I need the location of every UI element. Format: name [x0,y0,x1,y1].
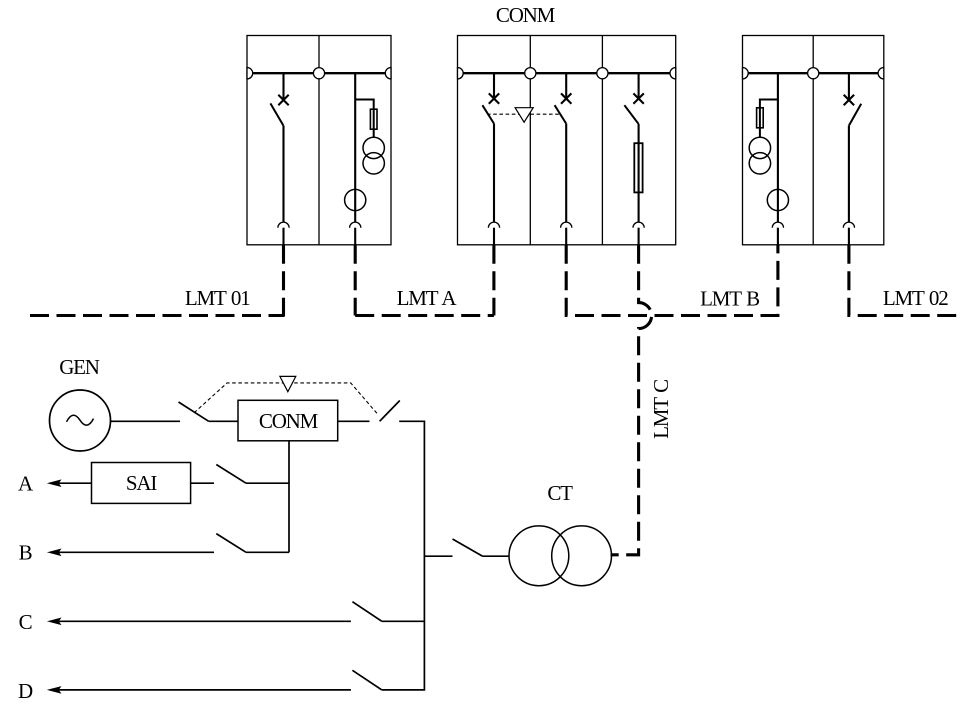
wire arrow D to switch D [58,689,351,691]
arrow A [49,480,61,486]
P3 cell1 CT ring [767,189,788,210]
wire SAI to switch A [191,482,214,484]
P2 cell1 switch blade [482,105,494,123]
CONM drop wire [288,441,290,553]
busbar junction circle P1 right [385,68,391,79]
transformer CT circle right [552,526,612,586]
wire arrow C to switch C [58,620,351,622]
busbar junction circle P3 left [743,68,749,79]
svg-text:CT: CT [547,481,573,505]
busbar P2 [458,72,676,74]
P1 cell1 switch blade [270,103,283,125]
interlock triangle P2 [515,108,533,123]
cable run LMT 01 [30,314,284,317]
cable run LMT A [355,314,494,317]
P2 cell2 cable head arc [561,222,572,228]
busbar junction circle P2 d [670,68,676,79]
P1 cell2 VT branch wire [355,100,374,138]
switch S1 blade (GEN side) [179,402,209,421]
P2 cell2 switch blade [555,105,567,123]
P1 cell2 VT circle lower [363,153,384,174]
P1 cell2 fuse [370,109,377,129]
busbar junction circle P3 right [878,68,884,79]
P3 cell1 VT branch wire [760,100,778,138]
wire switch A to CONM drop [246,482,289,484]
busbar junction circle P2 c [597,68,608,79]
P2 cell2 cable tail [565,228,567,245]
svg-text:C: C [19,610,32,634]
P2 cell3 contact cross [633,93,643,103]
generator sine symbol [67,415,94,425]
P3 cell2 feeder stub [848,73,850,100]
P3 cell1 fuse [757,108,764,128]
CONM box [238,400,338,441]
svg-text:LMT B: LMT B [700,287,759,311]
P2 cell1 cable head arc [488,222,499,228]
switch C blade [352,602,381,622]
panel P1 enclosure [247,36,391,245]
busbar junction circle P1 mid [313,68,324,79]
svg-text:LMT C: LMT C [649,380,673,439]
arrow D [49,687,61,693]
interlock dashed link P2 [487,113,560,115]
interlock triangle (transfer) [280,376,296,391]
P3 cell1 main line [777,73,779,222]
P1 cell2 cable head arc [350,222,361,228]
P2 cell3 feeder line [638,124,640,222]
wire arrow A to SAI [58,482,92,484]
P2 cell1 contact cross [489,93,499,103]
arrow B [49,549,61,555]
panel P2 enclosure [458,36,676,245]
svg-text:LMT 02: LMT 02 [883,286,948,310]
svg-text:LMT A: LMT A [397,286,458,310]
P3 cell1 cable head arc [772,222,783,228]
busbar junction circle P1 left [247,68,253,79]
switch CT blade [453,539,483,556]
wire switch to CONM box [209,420,238,422]
P3 cell2 switch blade [849,104,861,126]
svg-text:CONM: CONM [496,3,556,27]
cable run LMT 01 drop [282,245,285,317]
P2 cell3 cable head arc [633,222,644,228]
cable run LMT A drop right [492,245,495,316]
P2 cell3 fuse [634,143,642,192]
svg-text:B: B [19,541,32,565]
svg-text:SAI: SAI [126,471,157,495]
wire switch B to CONM drop [246,551,289,553]
P3 cell2 feeder line [848,126,850,223]
svg-text:D: D [18,679,33,703]
P1 cell1 contact cross [278,95,288,105]
wire arrow B to switch B [58,551,214,553]
switch B blade [216,534,246,553]
busbar P3 [743,72,884,74]
P2 cell2 feeder line [565,124,567,223]
P2 cell3 switch blade [624,105,638,124]
panel P3 enclosure [743,36,884,245]
P3 cell1 VT circle lower [749,153,770,174]
P2 cell3 cable tail [638,228,640,245]
arrow C [49,618,61,624]
wire CONM box to switch S2 [338,420,370,422]
P1 cell1 cable head arc [278,222,289,228]
cable run LMT A drop left [354,245,357,316]
busbar junction circle P2 b [525,68,536,79]
wire switch CT to CT [483,555,510,557]
cable run LMT 02 [849,245,958,316]
P3 cell1 cable tail [777,228,779,245]
P3 cell2 cable head arc [843,222,854,228]
P2 cell1 feeder stub [493,73,495,98]
cable run LMT C with crossover hop [611,245,652,555]
P3 cell2 contact cross [844,95,854,105]
P2 cell2 contact cross [561,93,571,103]
svg-text:A: A [18,472,34,496]
transformer CT circle left [509,526,569,586]
P2 cell1 feeder line [493,124,495,223]
P2 cell3 feeder stub [638,73,640,98]
P3 cell2 cable tail [848,228,850,245]
busbar junction circle P3 mid [808,68,819,79]
wire GEN to switch [111,420,181,422]
trunk wire (right riser with D corner) [382,421,425,690]
busbar P1 [247,72,391,74]
busbar junction circle P2 a [458,68,464,79]
P1 cell1 cable tail [282,228,284,245]
generator G [50,390,111,451]
cable run LMT B [566,245,778,316]
svg-text:GEN: GEN [59,355,100,379]
P1 cell2 CT ring [345,189,366,210]
switch A blade [216,465,246,484]
svg-text:LMT 01: LMT 01 [185,286,250,310]
wire trunk to switch CT [424,555,452,557]
wire switch C to trunk [382,620,425,622]
interlock dashed link (transfer) [194,383,378,415]
P3 cell1 VT circle upper [749,137,770,158]
svg-text:CONM: CONM [259,409,319,433]
switch D blade [352,670,381,690]
P1 cell2 cable tail [354,228,356,245]
P2 cell1 cable tail [493,228,495,245]
SAI box [92,463,191,504]
P2 cell2 feeder stub [565,73,567,98]
P1 cell2 main line [354,73,356,222]
P1 cell2 VT circle upper [363,137,384,158]
P1 cell1 feeder line [282,126,284,223]
P1 cell1 feeder stub [282,73,284,100]
switch S2 blade (trunk side) [380,401,400,422]
